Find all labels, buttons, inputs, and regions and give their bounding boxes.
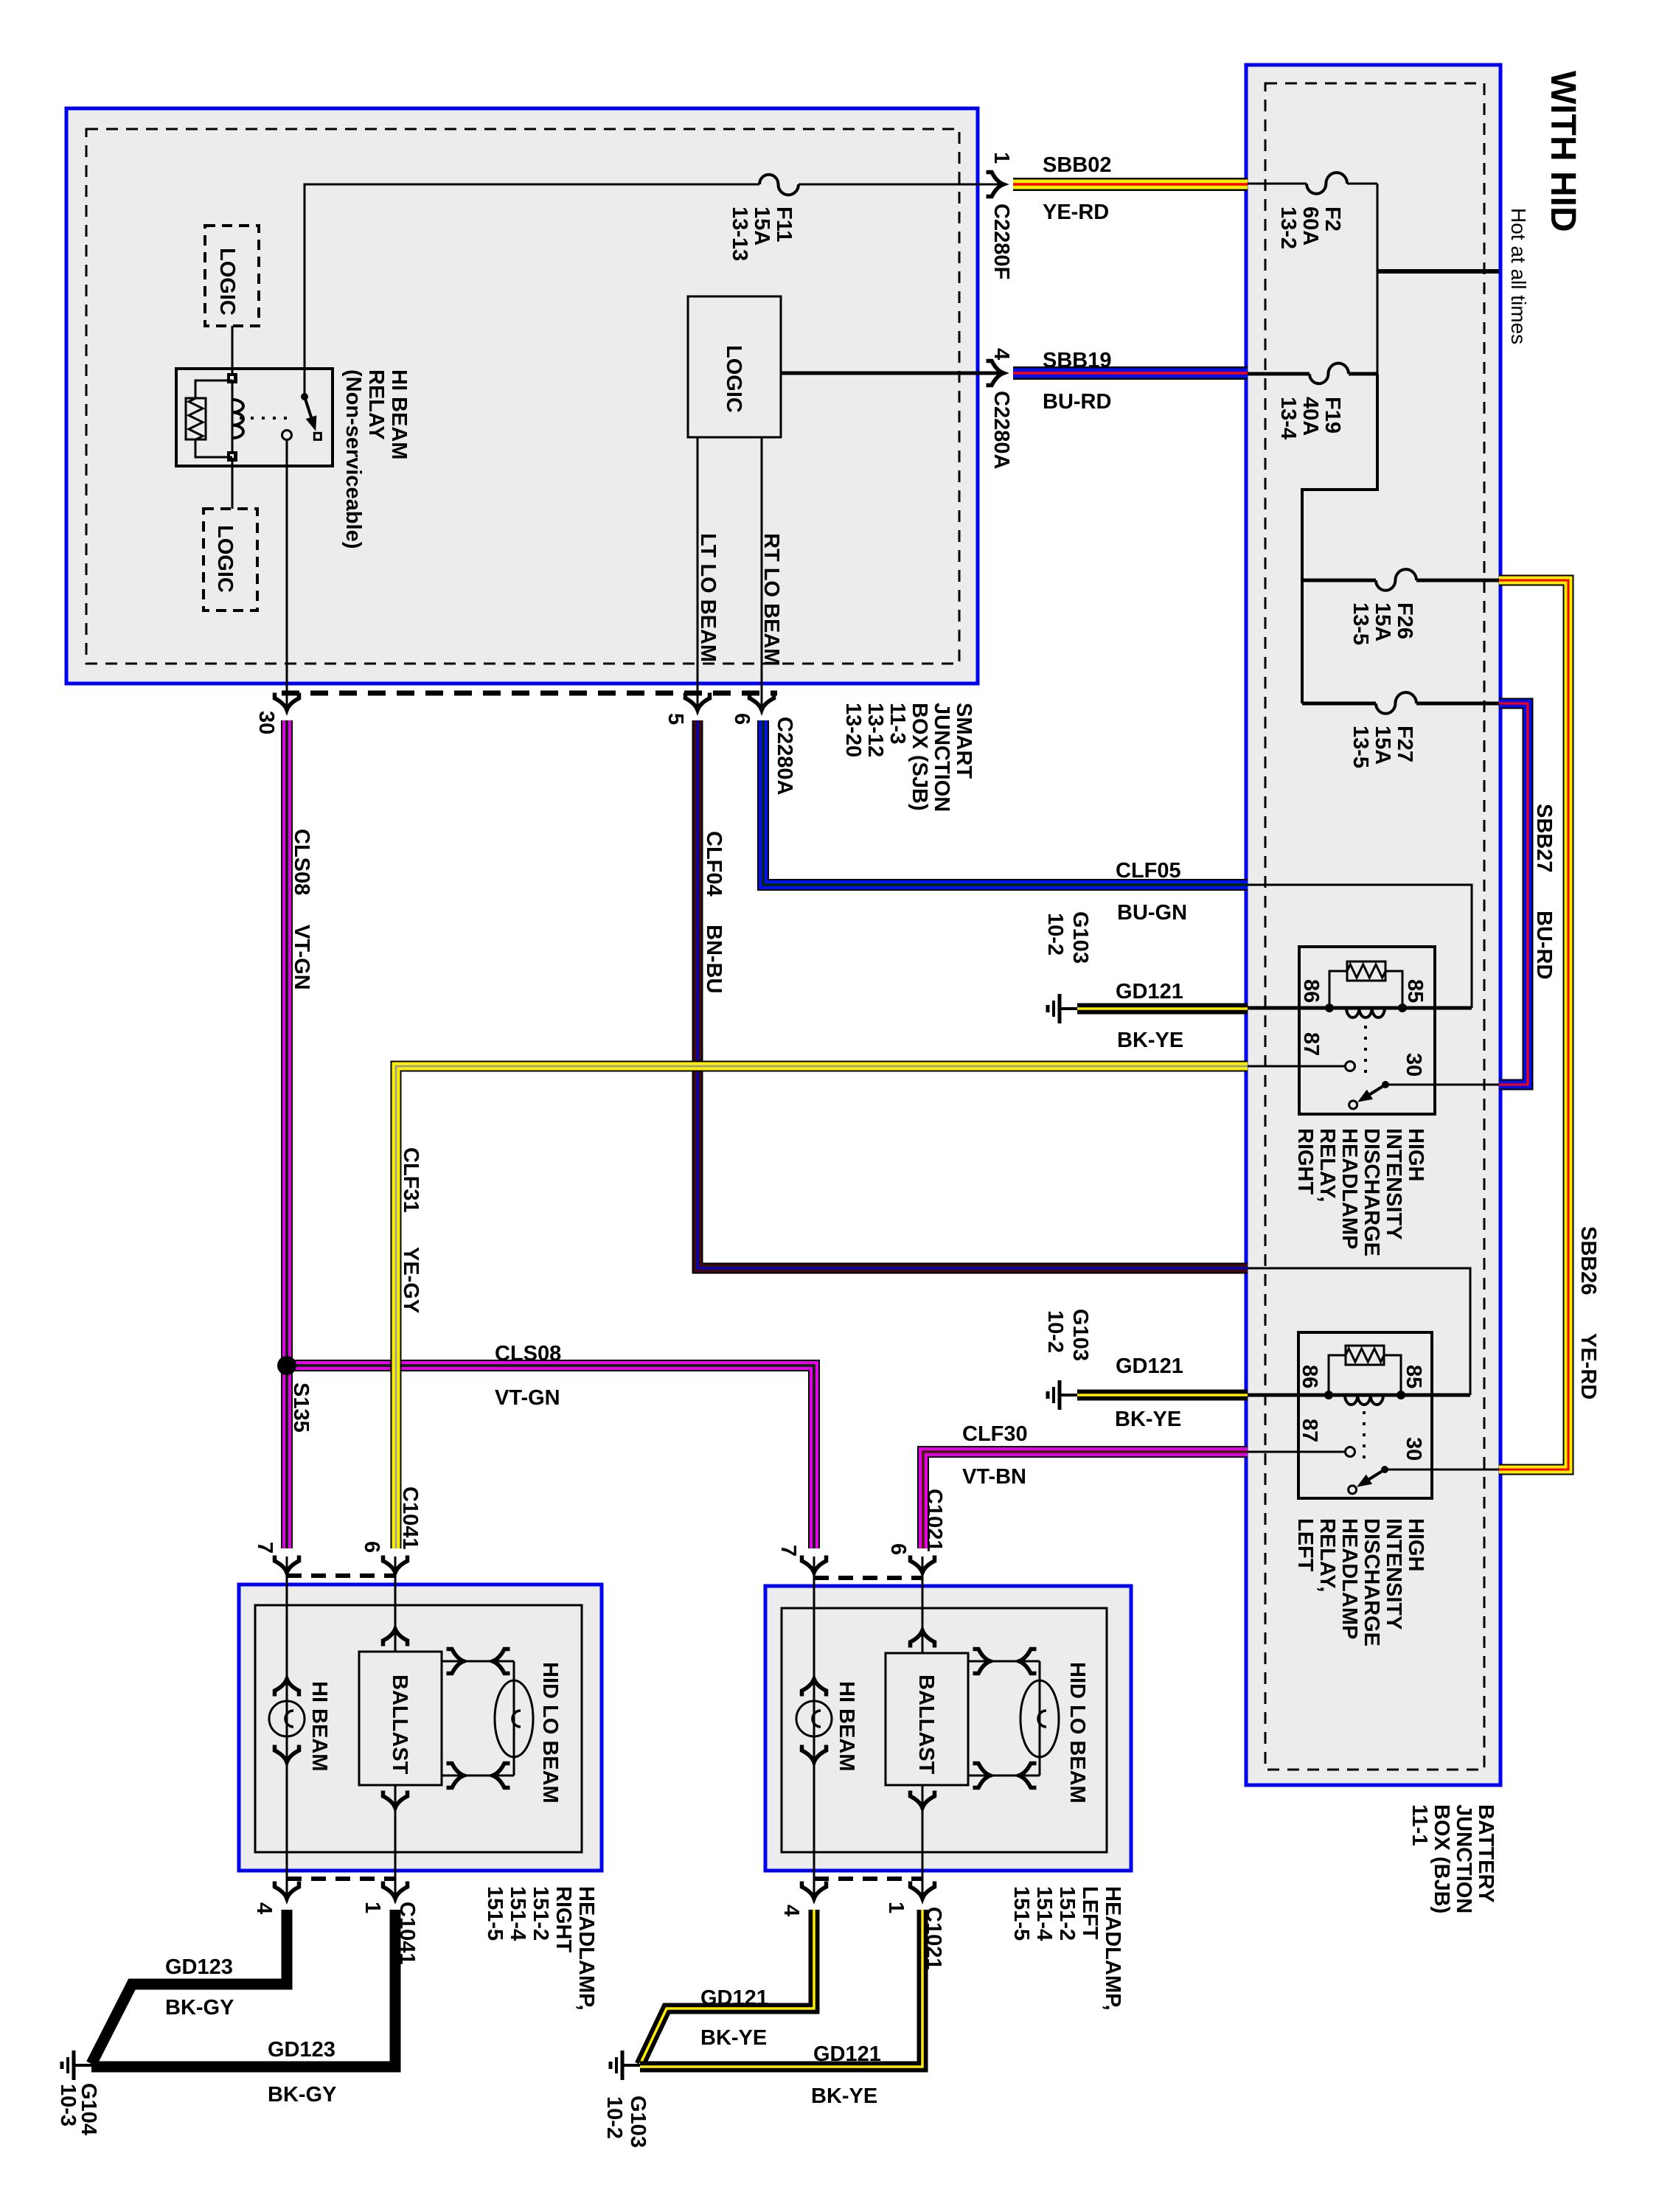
svg-text:13-5: 13-5 [1349,726,1372,768]
svg-text:85: 85 [1403,979,1427,1003]
svg-text:13-20: 13-20 [841,703,865,757]
svg-text:GD121: GD121 [813,2042,881,2066]
svg-text:6: 6 [360,1541,383,1553]
svg-text:GD121: GD121 [1116,980,1183,1004]
svg-text:BK-GY: BK-GY [268,2083,336,2107]
svg-text:4: 4 [990,348,1013,360]
svg-text:INTENSITY: INTENSITY [1382,1518,1405,1630]
svg-text:LT LO BEAM: LT LO BEAM [696,533,720,662]
svg-text:HID LO BEAM: HID LO BEAM [1065,1662,1089,1804]
svg-text:LOGIC: LOGIC [213,525,237,593]
svg-text:CLF05: CLF05 [1116,859,1181,883]
svg-text:CLF04: CLF04 [702,831,726,897]
svg-text:F26: F26 [1393,602,1416,639]
svg-text:RELAY: RELAY [364,369,388,440]
svg-text:CLF30: CLF30 [962,1422,1028,1446]
svg-text:7: 7 [776,1545,800,1557]
svg-text:CLS08: CLS08 [290,829,313,895]
svg-text:C1041: C1041 [395,1902,419,1964]
svg-text:HEADLAMP: HEADLAMP [1338,1518,1361,1639]
svg-text:LOGIC: LOGIC [722,345,745,413]
svg-text:1: 1 [990,152,1013,164]
svg-text:S135: S135 [289,1382,313,1433]
svg-text:BU-RD: BU-RD [1043,390,1111,414]
svg-text:RT LO BEAM: RT LO BEAM [759,533,783,666]
svg-text:HIGH: HIGH [1404,1518,1427,1572]
svg-text:13-12: 13-12 [863,703,887,757]
svg-text:1: 1 [884,1902,908,1913]
svg-text:RELAY,: RELAY, [1315,1128,1339,1202]
svg-text:10-2: 10-2 [1043,913,1067,956]
svg-text:BOX (BJB): BOX (BJB) [1430,1804,1453,1913]
svg-text:C1041: C1041 [398,1486,422,1549]
svg-text:BU-GN: BU-GN [1117,901,1187,925]
svg-text:1: 1 [361,1902,384,1913]
svg-text:LEFT: LEFT [1293,1518,1317,1572]
svg-text:SBB19: SBB19 [1043,349,1112,372]
svg-text:Hot at all times: Hot at all times [1507,208,1530,344]
svg-text:BALLAST: BALLAST [914,1674,938,1775]
svg-text:CLS08: CLS08 [495,1342,561,1366]
svg-text:10-3: 10-3 [56,2084,80,2126]
svg-text:C1021: C1021 [922,1489,946,1551]
svg-text:HI BEAM: HI BEAM [307,1681,331,1771]
svg-text:GD123: GD123 [268,2038,335,2062]
svg-text:HIGH: HIGH [1404,1128,1427,1182]
svg-text:HEADLAMP,: HEADLAMP, [1101,1886,1124,2011]
svg-text:GD121: GD121 [700,1986,768,2010]
svg-text:LEFT: LEFT [1078,1886,1102,1940]
svg-text:BK-YE: BK-YE [811,2084,877,2108]
svg-text:C2280A: C2280A [773,717,796,795]
svg-text:151-4: 151-4 [506,1886,529,1941]
svg-text:10-2: 10-2 [602,2096,626,2139]
svg-text:BOX (SJB): BOX (SJB) [908,703,931,811]
svg-text:87: 87 [1298,1419,1321,1442]
svg-text:86: 86 [1298,1365,1321,1388]
svg-text:G103: G103 [1068,911,1092,964]
svg-text:F19: F19 [1321,397,1344,434]
svg-text:G103: G103 [626,2096,650,2148]
svg-text:BK-GY: BK-GY [165,1996,234,2020]
svg-text:6: 6 [886,1543,910,1555]
svg-text:HI BEAM: HI BEAM [387,369,411,459]
svg-text:YE-RD: YE-RD [1576,1333,1600,1399]
svg-text:4: 4 [252,1902,276,1914]
svg-text:60A: 60A [1298,206,1322,246]
svg-text:YE-RD: YE-RD [1043,201,1109,224]
svg-text:HEADLAMP: HEADLAMP [1338,1128,1361,1249]
svg-text:15A: 15A [1371,726,1394,765]
svg-text:YE-GY: YE-GY [399,1247,422,1313]
svg-text:BK-YE: BK-YE [1115,1408,1181,1431]
svg-text:GD123: GD123 [165,1955,233,1979]
svg-text:30: 30 [1402,1437,1425,1461]
svg-text:87: 87 [1299,1032,1323,1056]
svg-text:F2: F2 [1321,206,1344,232]
svg-text:11-1: 11-1 [1408,1804,1431,1846]
svg-text:BATTERY: BATTERY [1474,1804,1498,1903]
svg-text:151-5: 151-5 [1009,1886,1033,1941]
svg-text:JUNCTION: JUNCTION [1452,1804,1475,1913]
svg-text:(Non-serviceable): (Non-serviceable) [341,369,365,549]
svg-text:15A: 15A [750,206,773,246]
svg-text:BALLAST: BALLAST [388,1674,411,1775]
svg-text:SMART: SMART [952,703,975,779]
svg-text:SBB27: SBB27 [1532,804,1556,873]
svg-text:BU-RD: BU-RD [1532,911,1556,979]
svg-text:RIGHT: RIGHT [1293,1128,1317,1195]
svg-text:VT-BN: VT-BN [962,1465,1026,1489]
svg-text:10-2: 10-2 [1043,1310,1067,1353]
svg-text:6: 6 [730,713,754,725]
svg-text:F11: F11 [772,206,796,242]
svg-text:BK-YE: BK-YE [700,2026,767,2050]
svg-text:F27: F27 [1393,726,1416,762]
svg-text:GD121: GD121 [1116,1354,1183,1378]
svg-text:SBB02: SBB02 [1043,153,1112,177]
svg-text:85: 85 [1402,1365,1425,1388]
svg-text:151-2: 151-2 [1055,1886,1079,1941]
svg-text:13-2: 13-2 [1276,206,1300,249]
svg-text:C1021: C1021 [922,1907,945,1969]
svg-text:4: 4 [779,1905,803,1916]
svg-text:30: 30 [1402,1053,1425,1077]
svg-text:CLF31: CLF31 [399,1147,422,1213]
svg-text:C2280F: C2280F [990,204,1013,279]
svg-text:HI BEAM: HI BEAM [835,1681,858,1771]
svg-text:151-5: 151-5 [483,1886,507,1941]
svg-text:LOGIC: LOGIC [215,248,239,316]
svg-text:HID LO BEAM: HID LO BEAM [538,1662,562,1804]
svg-text:151-2: 151-2 [529,1886,552,1941]
svg-text:5: 5 [664,713,687,725]
svg-text:13-4: 13-4 [1276,397,1300,439]
svg-text:SBB26: SBB26 [1576,1226,1600,1295]
svg-text:151-4: 151-4 [1032,1886,1056,1941]
svg-text:DISCHARGE: DISCHARGE [1360,1128,1383,1256]
svg-text:VT-GN: VT-GN [290,925,313,990]
svg-text:G103: G103 [1068,1309,1092,1361]
svg-text:WITH HID: WITH HID [1543,71,1582,232]
svg-text:7: 7 [253,1542,276,1554]
svg-text:INTENSITY: INTENSITY [1382,1128,1405,1239]
svg-text:RIGHT: RIGHT [552,1886,575,1953]
svg-text:BK-YE: BK-YE [1117,1029,1183,1052]
svg-text:DISCHARGE: DISCHARGE [1360,1518,1383,1646]
svg-text:HEADLAMP,: HEADLAMP, [574,1886,598,2011]
svg-text:11-3: 11-3 [886,703,909,744]
svg-text:30: 30 [254,711,278,734]
svg-text:C2280A: C2280A [990,391,1013,469]
svg-text:40A: 40A [1298,397,1322,436]
svg-text:VT-GN: VT-GN [495,1386,560,1410]
svg-text:JUNCTION: JUNCTION [930,703,953,812]
svg-text:86: 86 [1299,979,1323,1003]
svg-text:BN-BU: BN-BU [702,925,726,993]
svg-text:15A: 15A [1371,602,1394,641]
svg-text:13-13: 13-13 [728,206,751,261]
svg-text:13-5: 13-5 [1349,602,1372,645]
svg-text:RELAY,: RELAY, [1315,1518,1339,1592]
